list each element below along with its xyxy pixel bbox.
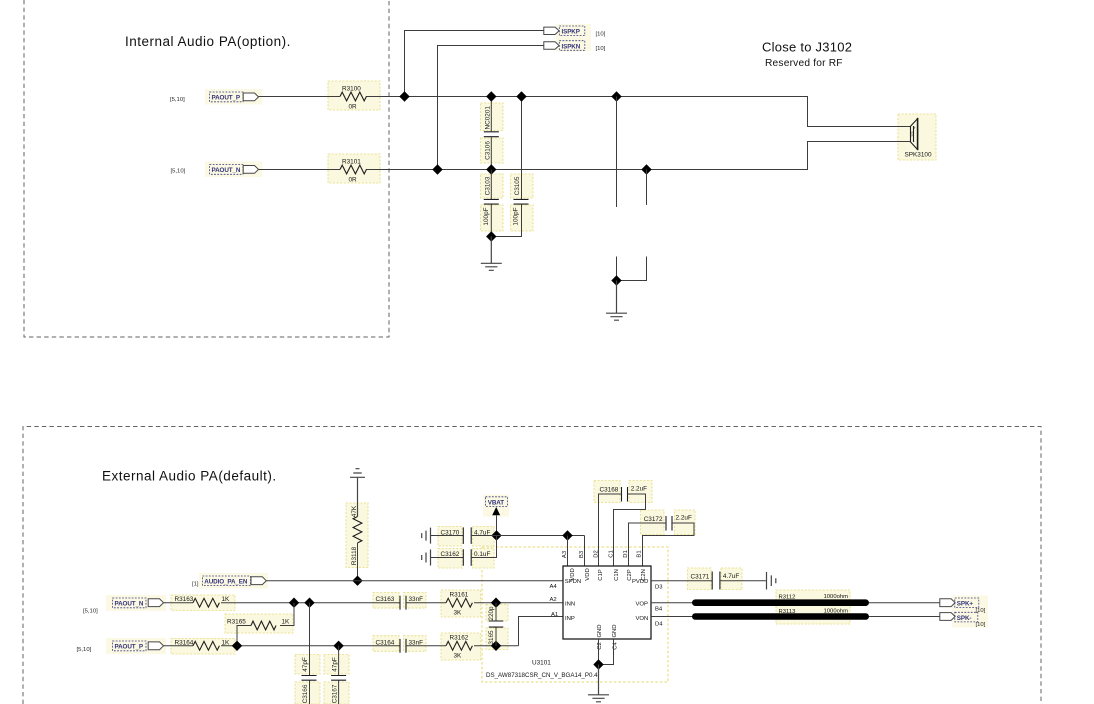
- net label ISPKN: [559, 41, 585, 51]
- svg-text:0R: 0R: [349, 176, 358, 183]
- svg-text:[5,10]: [5,10]: [170, 97, 185, 103]
- svg-text:VBAT: VBAT: [488, 499, 504, 506]
- svg-text:C1: C1: [608, 550, 614, 558]
- component highlight box: [199, 573, 268, 589]
- component highlight box: [295, 655, 320, 675]
- svg-text:R3112: R3112: [779, 595, 796, 601]
- svg-text:1K: 1K: [222, 596, 231, 603]
- component highlight box: [675, 510, 696, 535]
- component highlight box: [324, 655, 349, 675]
- port AUDIO_PA_EN: [251, 577, 266, 585]
- svg-text:SPK3100: SPK3100: [905, 152, 932, 159]
- svg-text:SPK: SPK: [910, 131, 914, 136]
- svg-text:DS_AW87318CSR_CN_V_BGA14_P0.4: DS_AW87318CSR_CN_V_BGA14_P0.4: [486, 672, 598, 679]
- port PAOUT_N bottom: [148, 599, 163, 607]
- wire R3163 to C3163: [221, 602, 400, 604]
- capacitor C3162 0.1uF: [422, 550, 431, 566]
- svg-text:C3167: C3167: [331, 684, 338, 703]
- svg-text:INN: INN: [565, 601, 575, 607]
- junction GND node: [593, 659, 603, 669]
- net label VBAT: [486, 497, 508, 507]
- wire x646 with gap: [617, 170, 647, 281]
- svg-text:[10]: [10]: [596, 46, 606, 52]
- component highlight box: [373, 593, 399, 609]
- net label SPK+: [955, 598, 979, 608]
- component highlight box: [481, 174, 504, 198]
- component highlight box: [171, 595, 235, 611]
- component highlight box: [404, 593, 427, 609]
- port SPK-: [940, 613, 955, 621]
- svg-text:33nF: 33nF: [409, 596, 424, 603]
- wire PVDD to C3171: [651, 580, 712, 582]
- svg-text:C1N: C1N: [614, 569, 620, 581]
- component highlight box: [556, 24, 591, 52]
- svg-text:C3106: C3106: [484, 141, 491, 160]
- svg-text:D3: D3: [655, 584, 663, 590]
- svg-text:[5,10]: [5,10]: [77, 647, 92, 653]
- svg-text:C3166: C3166: [302, 684, 309, 703]
- svg-text:INP: INP: [565, 616, 575, 622]
- svg-text:R3101: R3101: [342, 159, 361, 166]
- net label PAOUT_P: [210, 92, 244, 102]
- junction N row at R3165: [289, 598, 299, 608]
- power symbol VBAT triangle: [492, 507, 500, 515]
- wire x616 with gap: [616, 97, 618, 281]
- net label ISPKP: [559, 26, 585, 36]
- svg-text:C3162: C3162: [441, 551, 460, 558]
- inverted ground above R3118: [350, 469, 365, 517]
- svg-text:47pF: 47pF: [302, 657, 309, 672]
- junction INP node: [491, 641, 501, 651]
- svg-text:2.2uF: 2.2uF: [631, 486, 647, 493]
- svg-text:[5,10]: [5,10]: [83, 609, 98, 615]
- component highlight box: [688, 568, 712, 590]
- component highlight box: [776, 590, 850, 624]
- svg-text:A2: A2: [550, 597, 557, 603]
- junction P row at R3165: [232, 641, 242, 651]
- svg-text:+: +: [913, 126, 916, 131]
- svg-text:C3170: C3170: [441, 529, 460, 536]
- svg-text:C3164: C3164: [376, 639, 395, 646]
- wire R3100 to speaker corner: [366, 97, 911, 127]
- svg-text:ISPKN: ISPKN: [562, 43, 581, 50]
- component highlight box: [225, 614, 293, 633]
- svg-text:100pF: 100pF: [513, 207, 520, 225]
- svg-text:R3100: R3100: [342, 86, 361, 93]
- junction VBAT rail left: [491, 530, 501, 540]
- svg-text:47pF: 47pF: [331, 657, 338, 672]
- component highlight box: [205, 89, 262, 105]
- component highlight box: [441, 633, 481, 660]
- svg-text:GND: GND: [612, 624, 618, 637]
- svg-text:B1: B1: [637, 550, 643, 557]
- svg-text:SPK+: SPK+: [957, 601, 974, 608]
- wire VOP to bead: [651, 602, 694, 604]
- wire bead to SPK- port: [869, 616, 940, 618]
- net label AUDIO_PA_EN: [203, 576, 251, 586]
- component highlight box: [295, 682, 320, 704]
- pin stub D2 / C3168 left lead: [599, 494, 622, 566]
- svg-text:B3: B3: [579, 550, 585, 558]
- wire PAOUT_N to R3101: [259, 169, 341, 171]
- capacitor C3166 47pF: [309, 603, 311, 704]
- IC U3101 body: [563, 566, 651, 639]
- ground below U3101: [588, 665, 609, 702]
- svg-text:PVDD: PVDD: [632, 579, 648, 585]
- pin stub C4 GND: [599, 639, 614, 665]
- component highlight box: [328, 81, 380, 110]
- pin stub B3: [584, 536, 586, 567]
- svg-text:AUDIO_PA_EN: AUDIO_PA_EN: [204, 579, 248, 586]
- component highlight box: [171, 639, 235, 655]
- svg-text:A3: A3: [562, 550, 568, 558]
- component highlight box: [482, 547, 668, 682]
- component highlight box: [952, 596, 988, 628]
- svg-text:C3103: C3103: [484, 176, 491, 195]
- port PAOUT_P: [243, 93, 258, 101]
- wire ISPKP riser: [405, 31, 544, 97]
- component highlight box: [481, 103, 504, 131]
- svg-text:PAOUT_N: PAOUT_N: [115, 601, 144, 608]
- capacitor C3167 47pF: [338, 646, 340, 704]
- ground below C3103/C3105: [481, 237, 502, 271]
- component highlight box: [106, 638, 166, 654]
- svg-text:0R: 0R: [349, 103, 358, 110]
- svg-text:4.7uF: 4.7uF: [723, 573, 739, 580]
- component highlight box: [438, 549, 462, 569]
- svg-text:C3172: C3172: [644, 516, 663, 523]
- wire R3162 to INP riser: [474, 645, 519, 647]
- component highlight box: [511, 205, 534, 231]
- component highlight box: [324, 682, 349, 704]
- junction x646 on PAOUT_N: [641, 164, 651, 174]
- svg-text:C1P: C1P: [598, 569, 604, 581]
- pin stub C2 GND: [598, 639, 600, 665]
- junction VBAT rail at A3: [562, 530, 572, 540]
- component highlight box: [106, 595, 166, 611]
- svg-text:[10]: [10]: [596, 32, 606, 38]
- component highlight box: [594, 481, 620, 503]
- net label SPK-: [955, 612, 978, 622]
- junction C3105 top on PAOUT_P: [516, 91, 526, 101]
- capacitor C3103 100pF: [490, 170, 492, 237]
- junction C3103/C3105 common: [486, 231, 496, 241]
- svg-text:A4: A4: [550, 584, 558, 590]
- port ISPKN: [544, 42, 559, 49]
- svg-text:C3105: C3105: [514, 176, 521, 195]
- svg-text:GND: GND: [597, 624, 603, 637]
- svg-text:PAOUT_P: PAOUT_P: [115, 644, 143, 651]
- component highlight box: [511, 174, 534, 198]
- wire R3164 to C3164: [221, 645, 400, 647]
- capacitor C3170 4.7uF: [422, 528, 431, 544]
- component highlight box: [481, 138, 504, 163]
- svg-text:3165: 3165: [488, 630, 495, 645]
- component highlight box: [629, 481, 652, 503]
- component highlight box: [346, 503, 368, 568]
- pin stub D1 / C3172 left lead: [629, 523, 667, 566]
- wire R3101 to speaker corner: [366, 142, 911, 170]
- svg-text:220p: 220p: [488, 606, 495, 621]
- component highlight box: [721, 568, 742, 590]
- svg-text:100pF: 100pF: [483, 207, 490, 225]
- svg-text:C3171: C3171: [691, 573, 710, 580]
- svg-text:B4: B4: [655, 607, 663, 613]
- component highlight box: [473, 527, 495, 547]
- pin stub A3: [567, 536, 569, 567]
- port PAOUT_N: [243, 166, 258, 174]
- junction x616 lower: [611, 275, 621, 285]
- junction x616 on PAOUT_P: [611, 91, 621, 101]
- capacitor C3105 100pF: [491, 97, 521, 237]
- wire C3171 to ground: [720, 580, 766, 582]
- svg-text:SPDN: SPDN: [565, 579, 581, 585]
- junction INN node: [491, 598, 501, 608]
- svg-text:R3118: R3118: [351, 546, 358, 565]
- port ISPKP: [544, 27, 559, 34]
- component highlight box: [373, 636, 399, 652]
- svg-text:ISPKP: ISPKP: [562, 29, 580, 36]
- port SPK+: [940, 599, 955, 607]
- svg-text:1000ohm: 1000ohm: [824, 609, 849, 615]
- svg-text:D2: D2: [593, 550, 599, 558]
- component highlight box: [328, 154, 380, 183]
- junction C3106 top: [486, 91, 496, 101]
- component highlight box: [473, 549, 495, 569]
- svg-text:R3164: R3164: [175, 639, 194, 646]
- ferrite bead R3112 1000ohm: [692, 599, 869, 606]
- svg-text:[1]: [1]: [192, 581, 199, 587]
- svg-text:Internal Audio PA(option).: Internal Audio PA(option).: [125, 34, 291, 49]
- component highlight box: [641, 510, 665, 535]
- component highlight box: [483, 495, 509, 517]
- net label PAOUT_N bottom: [113, 598, 147, 608]
- wire R3161 to pin A2: [474, 602, 563, 604]
- svg-text:47K: 47K: [351, 505, 358, 517]
- svg-text:[10]: [10]: [976, 608, 986, 614]
- SECTION: External Audio PA dashed box: [23, 427, 1041, 704]
- junction on PAOUT_P at riser: [399, 91, 409, 101]
- svg-text:Reserved for RF: Reserved for RF: [765, 58, 843, 69]
- svg-text:3K: 3K: [454, 653, 463, 660]
- svg-text:SPK-: SPK-: [957, 615, 972, 622]
- component highlight box: [486, 628, 508, 650]
- component highlight box: [898, 114, 936, 160]
- junction R3118 on EN wire: [352, 576, 362, 586]
- svg-text:C3163: C3163: [376, 596, 395, 603]
- svg-text:Close to J3102: Close to J3102: [762, 40, 852, 55]
- wire C3163 to R3161: [406, 602, 446, 604]
- junction C3106 bottom on PAOUT_N: [486, 164, 496, 174]
- wire AUDIO_PA_EN to pin A4: [266, 580, 562, 582]
- svg-text:VOP: VOP: [636, 601, 649, 607]
- ground below x616: [606, 281, 627, 321]
- wire C3164 to R3162: [406, 645, 446, 647]
- wire VBAT rail: [497, 535, 585, 537]
- wire INP riser to pin A1: [519, 617, 564, 646]
- svg-text:NC0201: NC0201: [484, 106, 491, 130]
- svg-text:1K: 1K: [282, 619, 291, 626]
- net label PAOUT_P bottom: [113, 641, 147, 651]
- speaker SPK3100: [911, 119, 918, 150]
- svg-text:U3101: U3101: [532, 660, 551, 667]
- svg-text:33nF: 33nF: [409, 639, 424, 646]
- C3172 right lead to B1: [643, 523, 695, 566]
- svg-text:A1: A1: [551, 612, 558, 618]
- svg-text:[10]: [10]: [976, 622, 986, 628]
- ground sideways PVDD: [767, 572, 776, 590]
- wire PAOUT_P to R3100: [259, 96, 341, 98]
- svg-text:External Audio PA(default).: External Audio PA(default).: [102, 469, 277, 484]
- svg-text:R3163: R3163: [175, 596, 194, 603]
- svg-text:VDD: VDD: [585, 568, 591, 580]
- svg-text:2.2uF: 2.2uF: [676, 515, 692, 522]
- SECTION: Internal Audio PA dashed box: [24, 0, 389, 337]
- junction on PAOUT_N at riser: [432, 164, 442, 174]
- svg-text:1000ohm: 1000ohm: [824, 594, 849, 600]
- capacitor C3106 NC0201: [490, 97, 492, 170]
- wire VON to bead: [651, 616, 694, 618]
- component highlight box: [481, 205, 504, 231]
- component highlight box: [404, 636, 427, 652]
- svg-text:VON: VON: [636, 616, 649, 622]
- component highlight box: [438, 527, 462, 547]
- svg-text:D4: D4: [655, 621, 663, 627]
- component highlight box: [205, 162, 262, 178]
- junction N row at C3166: [304, 598, 314, 608]
- junction P row at C3167: [333, 641, 343, 651]
- svg-text:PAOUT_N: PAOUT_N: [212, 167, 241, 174]
- port PAOUT_P bottom: [148, 642, 163, 650]
- wire bead to SPK+ port: [869, 602, 940, 604]
- C3168 right lead to C1: [614, 494, 646, 566]
- svg-text:D1: D1: [623, 550, 629, 558]
- ferrite bead R3113 1000ohm: [692, 613, 869, 620]
- component highlight box: [441, 590, 481, 617]
- svg-text:PAOUT_P: PAOUT_P: [212, 95, 240, 102]
- svg-text:1K: 1K: [222, 639, 231, 646]
- wire ISPKN riser: [438, 46, 544, 170]
- svg-text:[5,10]: [5,10]: [171, 169, 186, 175]
- svg-text:R3165: R3165: [227, 619, 246, 626]
- svg-text:R3113: R3113: [779, 609, 797, 615]
- net label PAOUT_N: [210, 165, 244, 175]
- component highlight box: [486, 605, 508, 622]
- svg-text:C3168: C3168: [600, 486, 619, 493]
- svg-text:3K: 3K: [454, 610, 463, 617]
- capacitor C3165 220p: [495, 603, 497, 646]
